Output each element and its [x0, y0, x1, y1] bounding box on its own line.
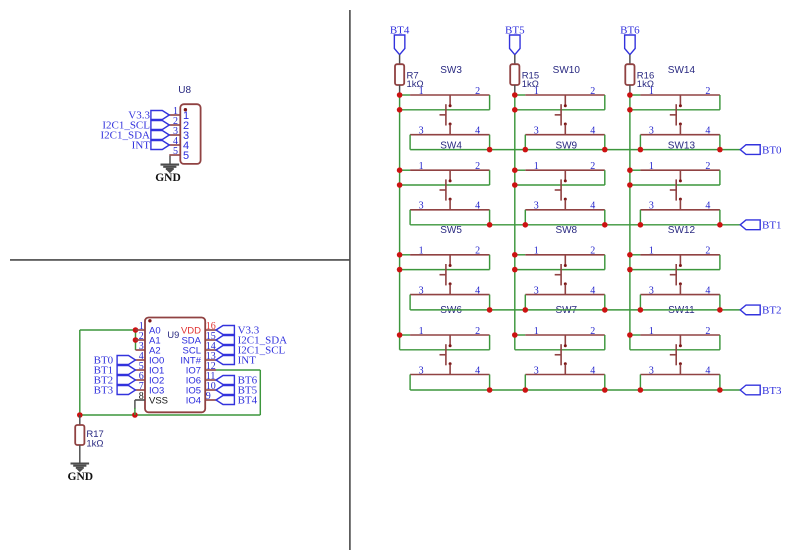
switch SW12 jumper wire right [719, 255, 721, 270]
switch SW3 pins 3-4 rail [410, 134, 490, 136]
svg-text:4: 4 [590, 365, 595, 376]
U9 pin 3 stub [136, 349, 146, 351]
junction SW12 pin4 at row net [717, 307, 723, 313]
wire A0 net horizontal to U9 pin 1 [80, 329, 136, 331]
switch SW14 jumper wire bottom [630, 109, 720, 111]
svg-text:4: 4 [475, 365, 480, 376]
U8 pin 1 stub [169, 114, 180, 116]
switch SW9 upper contact dot [564, 179, 567, 182]
resistor R7 body [395, 64, 404, 85]
switch SW4 lower contact lead [449, 200, 451, 210]
switch SW5 actuator stem [440, 274, 446, 276]
switch SW13 upper contact lead [679, 170, 681, 180]
switch SW3 top rail wire segment [400, 94, 411, 96]
wire BT6 to R16 [629, 55, 631, 64]
switch SW10 actuator stem [555, 114, 561, 116]
connector U8 body [180, 104, 200, 164]
switch SW6 actuator [445, 344, 447, 365]
U9 pin 12 stub [205, 369, 216, 371]
switch SW10 pin3 drop wire [524, 135, 526, 150]
svg-text:2: 2 [475, 326, 480, 337]
svg-text:3: 3 [649, 285, 654, 296]
switch SW5 pins 3-4 rail [410, 294, 490, 296]
switch SW14 actuator [675, 104, 677, 125]
switch SW8 pins 1-2 rail [525, 254, 605, 256]
switch SW6 lower contact lead [449, 364, 451, 374]
junction SW5 pin4 at row net [487, 307, 493, 313]
junction SW14 jumper at column [627, 107, 633, 113]
switch SW3 upper contact lead [449, 95, 451, 105]
junction SW4 jumper at column [397, 182, 403, 188]
junction SW9 pin3 at row net [523, 222, 529, 228]
switch SW9 actuator stem [555, 189, 561, 191]
switch SW14 jumper wire right [719, 95, 721, 110]
resistor R15 body [510, 64, 519, 85]
switch SW6 pin4 drop wire [489, 375, 491, 391]
svg-text:U9: U9 [167, 330, 179, 340]
switch SW3 lower contact lead [449, 125, 451, 135]
wire IO7 wrap vertical segment [259, 370, 261, 415]
junction SW10 pin3 at row net [523, 147, 529, 153]
switch SW3 upper contact dot [449, 104, 452, 107]
switch SW10 upper contact lead [564, 95, 566, 105]
switch SW12 lower contact dot [679, 282, 682, 285]
svg-text:2: 2 [705, 161, 710, 172]
U9 pin 9 stub [205, 399, 216, 401]
junction SW8 pin3 at row net [523, 307, 529, 313]
wire BT5 to R15 [514, 55, 516, 64]
switch SW12 pin4 drop wire [719, 295, 721, 310]
switch SW5 pin3 drop wire [409, 295, 411, 310]
switch SW10 lower contact dot [564, 123, 567, 126]
switch SW14 lower contact dot [679, 123, 682, 126]
switch SW12 actuator stem [670, 274, 676, 276]
switch SW14 pins 3-4 rail [640, 134, 720, 136]
junction SW9 pin4 at row net [602, 222, 608, 228]
svg-text:1kΩ: 1kΩ [86, 438, 103, 449]
switch SW10 top rail wire segment [515, 94, 526, 96]
svg-text:1: 1 [534, 246, 539, 257]
svg-text:3: 3 [419, 365, 424, 376]
svg-text:SW12: SW12 [668, 225, 696, 236]
hierarchical label BT2 row right [740, 305, 760, 315]
U9 pin 15 stub [205, 339, 216, 341]
switch SW11 lower contact dot [679, 362, 682, 365]
wire left vertical from pin1 down to R17 node [79, 330, 81, 415]
svg-text:BT3: BT3 [762, 385, 782, 397]
switch SW7 pins 3-4 rail [525, 374, 605, 376]
hierarchical label BT6 at U9 pin 11 [216, 376, 234, 385]
hierarchical label I2C1_SCL at U9 pin 14 [216, 346, 234, 355]
switch SW9 pins 3-4 rail [525, 209, 605, 211]
junction SW7 pin4 at row net [602, 387, 608, 393]
switch SW3 actuator stem [440, 114, 446, 116]
switch SW5 jumper wire bottom [400, 269, 490, 271]
switch SW11 upper contact lead [679, 335, 681, 345]
junction SW7 pin3 at row net [523, 387, 529, 393]
switch SW9 lower contact lead [564, 200, 566, 210]
junction SW11 top rail at column [627, 332, 633, 338]
svg-text:4: 4 [705, 285, 710, 296]
switch SW12 jumper wire bottom [630, 269, 720, 271]
svg-text:4: 4 [705, 201, 710, 212]
svg-text:1: 1 [419, 86, 424, 97]
switch SW11 upper contact dot [679, 344, 682, 347]
junction SW6 pin4 at row net [487, 387, 493, 393]
switch SW14 pin3 drop wire [639, 135, 641, 150]
U9 pin 7 stub [136, 389, 146, 391]
svg-text:3: 3 [419, 285, 424, 296]
switch SW4 actuator stem [440, 189, 446, 191]
junction SW10 jumper at column [512, 107, 518, 113]
switch SW8 jumper wire bottom [515, 269, 605, 271]
svg-text:3: 3 [419, 126, 424, 137]
switch SW6 lower contact dot [449, 362, 452, 365]
switch SW7 pin4 drop wire [604, 375, 606, 391]
svg-text:3: 3 [534, 365, 539, 376]
hierarchical label I2C1_SDA at U9 pin 15 [216, 336, 234, 345]
switch SW5 actuator [445, 264, 447, 285]
junction SW8 jumper at column [512, 267, 518, 273]
junction SW12 jumper at column [627, 267, 633, 273]
switch SW12 pins 1-2 rail [640, 254, 720, 256]
U9 pin 13 stub [205, 359, 216, 361]
svg-text:1: 1 [534, 161, 539, 172]
svg-text:1: 1 [534, 86, 539, 97]
svg-text:3: 3 [534, 201, 539, 212]
switch SW5 jumper wire right [489, 255, 491, 270]
switch SW3 actuator [445, 104, 447, 125]
switch SW9 lower contact dot [564, 198, 567, 201]
junction SW3 jumper at column [397, 107, 403, 113]
switch SW10 upper contact dot [564, 104, 567, 107]
switch SW6 jumper wire bottom [400, 349, 490, 351]
svg-text:2: 2 [590, 246, 595, 257]
wire ground rail horizontal y415 [80, 414, 260, 416]
junction SW13 pin3 at row net [638, 222, 644, 228]
junction SW13 pin4 at row net [717, 222, 723, 228]
switch SW3 jumper wire bottom [400, 109, 490, 111]
svg-text:3: 3 [419, 201, 424, 212]
switch SW3 lower contact dot [449, 123, 452, 126]
hierarchical label BT3 row right [740, 385, 760, 395]
U9 pin 1 stub [136, 329, 146, 331]
svg-text:4: 4 [705, 365, 710, 376]
U9 pin 8 stub [135, 399, 145, 401]
switch SW13 lower contact lead [679, 200, 681, 210]
svg-text:4: 4 [590, 126, 595, 137]
switch SW13 pins 3-4 rail [640, 209, 720, 211]
switch SW4 actuator [445, 179, 447, 200]
svg-text:4: 4 [590, 285, 595, 296]
switch SW11 top rail wire segment [630, 334, 641, 336]
switch SW5 upper contact lead [449, 255, 451, 265]
switch SW14 lower contact lead [679, 125, 681, 135]
U9 pin 2 stub [136, 339, 146, 341]
switch SW10 lower contact lead [564, 125, 566, 135]
switch SW12 upper contact dot [679, 264, 682, 267]
svg-text:BT2: BT2 [762, 305, 782, 317]
wire BT4 to R7 [399, 55, 401, 64]
wire U9 pins 1-3 vertical tie [135, 330, 137, 350]
switch SW11 jumper wire bottom [630, 349, 720, 351]
switch SW8 upper contact dot [564, 264, 567, 267]
resistor R17 bottom lead [79, 445, 81, 463]
switch SW7 pins 1-2 rail [525, 334, 605, 336]
svg-text:SW10: SW10 [553, 65, 581, 76]
switch SW7 upper contact lead [564, 335, 566, 345]
switch SW9 actuator [560, 179, 562, 200]
junction SW5 top rail at column [397, 252, 403, 258]
switch SW8 top rail wire segment [515, 254, 526, 256]
junction at R17 top node [77, 412, 83, 418]
switch SW5 upper contact dot [449, 264, 452, 267]
switch SW8 actuator [560, 264, 562, 285]
svg-text:1: 1 [419, 161, 424, 172]
hierarchical label BT1 row right [740, 220, 760, 230]
junction SW4 pin4 at row net [487, 222, 493, 228]
hierarchical label BT4 at U9 pin 9 [216, 396, 234, 405]
switch SW7 actuator stem [555, 354, 561, 356]
U8 pin 4 stub [169, 144, 180, 146]
switch SW8 pin4 drop wire [604, 295, 606, 310]
wire R15 to column line [514, 85, 516, 95]
switch SW8 pin3 drop wire [524, 295, 526, 310]
U9 pin 10 stub [205, 389, 216, 391]
svg-text:4: 4 [590, 201, 595, 212]
svg-text:3: 3 [649, 365, 654, 376]
svg-text:IO4: IO4 [186, 396, 201, 407]
svg-text:2: 2 [590, 161, 595, 172]
wire VSS pin down [134, 400, 136, 409]
switch SW13 top rail wire segment [630, 169, 641, 171]
switch SW14 upper contact lead [679, 95, 681, 105]
switch SW13 jumper wire bottom [630, 184, 720, 186]
switch SW4 pin4 drop wire [489, 210, 491, 225]
switch SW12 pin3 drop wire [639, 295, 641, 310]
switch SW13 pin4 drop wire [719, 210, 721, 225]
switch SW5 lower contact lead [449, 284, 451, 294]
partition divider vertical [349, 10, 351, 550]
wire R7 to column line [399, 85, 401, 95]
switch SW4 pins 3-4 rail [410, 209, 490, 211]
svg-text:BT1: BT1 [762, 220, 782, 232]
wire column line BT5 [514, 95, 516, 350]
junction SW12 pin3 at row net [638, 307, 644, 313]
svg-text:4: 4 [475, 285, 480, 296]
svg-text:1: 1 [649, 161, 654, 172]
switch SW8 lower contact dot [564, 282, 567, 285]
switch SW8 actuator stem [555, 274, 561, 276]
wire U8 pin5 to ground [169, 156, 171, 165]
switch SW6 pin3 drop wire [409, 375, 411, 391]
hierarchical label I2C1_SDA at U8 pin 3 [151, 131, 169, 140]
switch SW11 lower contact lead [679, 364, 681, 374]
junction SW13 top rail at column [627, 167, 633, 173]
hierarchical label INT at U9 pin 13 [216, 356, 234, 365]
junction SW11 pin3 at row net [638, 387, 644, 393]
svg-text:SW11: SW11 [668, 305, 695, 316]
switch SW12 top rail wire segment [630, 254, 641, 256]
switch SW14 pins 1-2 rail [640, 94, 720, 96]
svg-text:1: 1 [649, 246, 654, 257]
switch SW12 lower contact lead [679, 284, 681, 294]
junction SW5 jumper at column [397, 267, 403, 273]
switch SW6 upper contact dot [449, 344, 452, 347]
hierarchical label BT3 at U9 pin 7 [117, 386, 135, 395]
svg-text:5: 5 [183, 150, 189, 162]
U9 pin 5 stub [136, 369, 146, 371]
U9 pin 4 stub [136, 359, 146, 361]
switch SW7 upper contact dot [564, 344, 567, 347]
switch SW3 pins 1-2 rail [410, 94, 490, 96]
junction SW8 pin4 at row net [602, 307, 608, 313]
switch SW13 jumper wire right [719, 170, 721, 185]
junction SW3 pin4 at row net [487, 147, 493, 153]
switch SW10 pin4 drop wire [604, 135, 606, 150]
svg-text:9: 9 [206, 391, 211, 402]
ground symbol GND at R17 [71, 462, 90, 464]
switch SW6 actuator stem [440, 354, 446, 356]
junction SW11 pin4 at row net [717, 387, 723, 393]
wire IO7 wrap right segment [216, 369, 260, 371]
hierarchical label V3.3 at U9 pin 16 [216, 326, 234, 335]
svg-text:VSS: VSS [149, 396, 168, 407]
svg-text:2: 2 [475, 246, 480, 257]
switch SW4 upper contact lead [449, 170, 451, 180]
svg-text:SW6: SW6 [440, 305, 462, 316]
connector U8 pin1 marker dot [184, 108, 187, 111]
switch SW9 jumper wire bottom [515, 184, 605, 186]
svg-text:BT4: BT4 [238, 395, 258, 407]
junction SW14 top rail at column [627, 92, 633, 98]
switch SW4 jumper wire bottom [400, 184, 490, 186]
switch SW9 top rail wire segment [515, 169, 526, 171]
wire row net BT3 horizontal [410, 389, 740, 391]
switch SW12 upper contact lead [679, 255, 681, 265]
svg-text:SW14: SW14 [668, 65, 696, 76]
switch SW14 actuator stem [670, 114, 676, 116]
svg-text:1: 1 [649, 86, 654, 97]
svg-text:BT3: BT3 [94, 385, 114, 397]
junction at ground rail below VSS [132, 412, 138, 418]
svg-text:4: 4 [475, 126, 480, 137]
switch SW11 pins 1-2 rail [640, 334, 720, 336]
switch SW9 upper contact lead [564, 170, 566, 180]
switch SW5 lower contact dot [449, 282, 452, 285]
hierarchical label I2C1_SCL at U8 pin 2 [151, 121, 169, 130]
junction SW12 top rail at column [627, 252, 633, 258]
svg-text:SW5: SW5 [440, 225, 462, 236]
switch SW11 pin4 drop wire [719, 375, 721, 391]
U8 pin 3 stub [169, 134, 180, 136]
svg-text:1: 1 [419, 326, 424, 337]
junction SW14 pin4 at row net [717, 147, 723, 153]
junction SW10 top rail at column [512, 92, 518, 98]
switch SW9 pin4 drop wire [604, 210, 606, 225]
junction at U9 pin2 [133, 337, 139, 343]
hierarchical label BT0 row right [740, 145, 760, 155]
svg-text:5: 5 [173, 146, 178, 157]
svg-text:4: 4 [475, 201, 480, 212]
switch SW11 pin3 drop wire [639, 375, 641, 391]
switch SW14 pin4 drop wire [719, 135, 721, 150]
wire row net BT1 horizontal [410, 224, 740, 226]
switch SW13 lower contact dot [679, 198, 682, 201]
switch SW7 lower contact dot [564, 362, 567, 365]
switch SW4 lower contact dot [449, 198, 452, 201]
switch SW7 lower contact lead [564, 364, 566, 374]
svg-text:GND: GND [155, 172, 181, 184]
svg-text:3: 3 [534, 126, 539, 137]
switch SW10 actuator [560, 104, 562, 125]
svg-text:2: 2 [475, 86, 480, 97]
switch SW13 pin3 drop wire [639, 210, 641, 225]
switch SW12 pins 3-4 rail [640, 294, 720, 296]
hierarchical label BT0 at U9 pin 4 [117, 356, 135, 365]
switch SW8 upper contact lead [564, 255, 566, 265]
partition divider horizontal [10, 259, 350, 261]
svg-text:SW7: SW7 [555, 305, 577, 316]
svg-text:2: 2 [705, 86, 710, 97]
switch SW9 jumper wire right [604, 170, 606, 185]
switch SW4 upper contact dot [449, 179, 452, 182]
svg-text:2: 2 [475, 161, 480, 172]
switch SW11 pins 3-4 rail [640, 374, 720, 376]
switch SW13 upper contact dot [679, 179, 682, 182]
svg-text:U8: U8 [178, 85, 191, 96]
switch SW7 pin3 drop wire [524, 375, 526, 391]
switch SW7 jumper wire right [604, 335, 606, 350]
svg-text:1: 1 [419, 246, 424, 257]
junction SW9 top rail at column [512, 167, 518, 173]
switch SW5 top rail wire segment [400, 254, 411, 256]
resistor R17 body [75, 425, 84, 445]
junction SW9 jumper at column [512, 182, 518, 188]
svg-text:INT: INT [238, 355, 257, 367]
junction SW6 top rail at column [397, 332, 403, 338]
switch SW11 jumper wire right [719, 335, 721, 350]
junction SW13 jumper at column [627, 182, 633, 188]
svg-text:3: 3 [649, 201, 654, 212]
U9 pin 16 stub [205, 329, 216, 331]
svg-text:8: 8 [139, 391, 144, 402]
hierarchical label INT at U8 pin 4 [151, 141, 169, 150]
junction at U9 pin1 [133, 327, 139, 333]
U9 pin 6 stub [136, 379, 146, 381]
switch SW3 pin4 drop wire [489, 135, 491, 150]
svg-text:INT: INT [132, 140, 151, 152]
hierarchical label V3.3 at U8 pin 1 [151, 111, 169, 120]
switch SW8 lower contact lead [564, 284, 566, 294]
switch SW6 jumper wire right [489, 335, 491, 350]
switch SW4 top rail wire segment [400, 169, 411, 171]
U9 pin 11 stub [205, 379, 216, 381]
switch SW12 actuator [675, 264, 677, 285]
junction SW3 top rail at column [397, 92, 403, 98]
switch SW10 jumper wire bottom [515, 109, 605, 111]
svg-text:2: 2 [590, 86, 595, 97]
switch SW14 top rail wire segment [630, 94, 641, 96]
switch SW10 pins 3-4 rail [525, 134, 605, 136]
switch SW3 jumper wire right [489, 95, 491, 110]
U9 pin 14 stub [205, 349, 216, 351]
switch SW5 pins 1-2 rail [410, 254, 490, 256]
switch SW9 pins 1-2 rail [525, 169, 605, 171]
ground symbol GND at U8 [161, 164, 180, 166]
junction SW7 top rail at column [512, 332, 518, 338]
wire column line BT6 [629, 95, 631, 350]
